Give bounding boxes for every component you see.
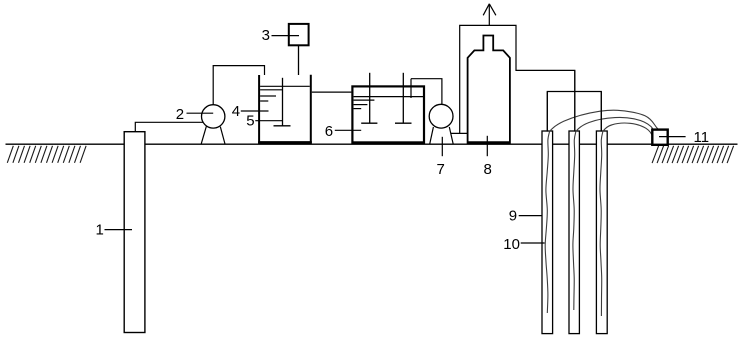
stirrer shaft from box 3	[298, 46, 300, 93]
svg-text:4: 4	[232, 103, 240, 120]
svg-text:8: 8	[484, 161, 492, 178]
tank T2 liquid level	[354, 97, 424, 109]
hose to well B	[576, 117, 656, 133]
enclosure around vessel 8	[460, 25, 575, 133]
ground line	[6, 143, 738, 145]
wire well1 to pump2	[135, 122, 203, 131]
tank T1 background	[258, 75, 312, 144]
left ground hatching	[7, 146, 86, 163]
svg-text:3: 3	[262, 27, 270, 44]
hose C inside well	[600, 131, 603, 316]
wire tank2 to pump7	[411, 79, 442, 105]
svg-text:11: 11	[694, 129, 710, 146]
svg-text:5: 5	[246, 112, 254, 129]
svg-text:7: 7	[437, 161, 445, 178]
svg-text:1: 1	[96, 221, 104, 238]
tank T2	[352, 86, 424, 142]
svg-text:9: 9	[509, 208, 517, 225]
injection well C	[596, 131, 607, 334]
injection well A	[542, 131, 553, 334]
hose to well C	[603, 123, 653, 137]
wire tank1 to tank2	[312, 91, 352, 93]
hose B inside well	[573, 131, 576, 310]
stirrer rod C in T2	[402, 73, 404, 123]
pump P7 body	[429, 104, 453, 128]
well 1 (extraction well)	[124, 132, 145, 333]
wire pump7 to vessel8	[451, 132, 469, 134]
motor box 3	[289, 24, 309, 45]
pump P2 body	[202, 105, 225, 128]
manifold to wells A and C	[547, 92, 601, 132]
hose A inside well	[545, 131, 549, 313]
vessel 8	[468, 36, 510, 143]
tank T1 liquid level	[260, 86, 310, 101]
hose to well A	[550, 110, 660, 131]
tank T1 walls	[258, 75, 312, 144]
pump P7 legs	[430, 127, 453, 144]
svg-text:10: 10	[503, 236, 520, 253]
feed pipes into wells	[547, 70, 601, 131]
stirrer rod in T1	[282, 78, 284, 126]
svg-text:6: 6	[325, 123, 333, 140]
dip tube in T2	[410, 79, 412, 98]
blower box 11	[652, 130, 667, 145]
vent arrow	[483, 4, 496, 26]
pump P2 legs	[201, 126, 225, 143]
right ground hatching	[652, 146, 734, 163]
injection well B	[569, 131, 579, 334]
wire pump2 to tank1	[213, 66, 264, 105]
stirrer rod B in T2	[369, 73, 371, 123]
svg-text:2: 2	[176, 106, 184, 123]
